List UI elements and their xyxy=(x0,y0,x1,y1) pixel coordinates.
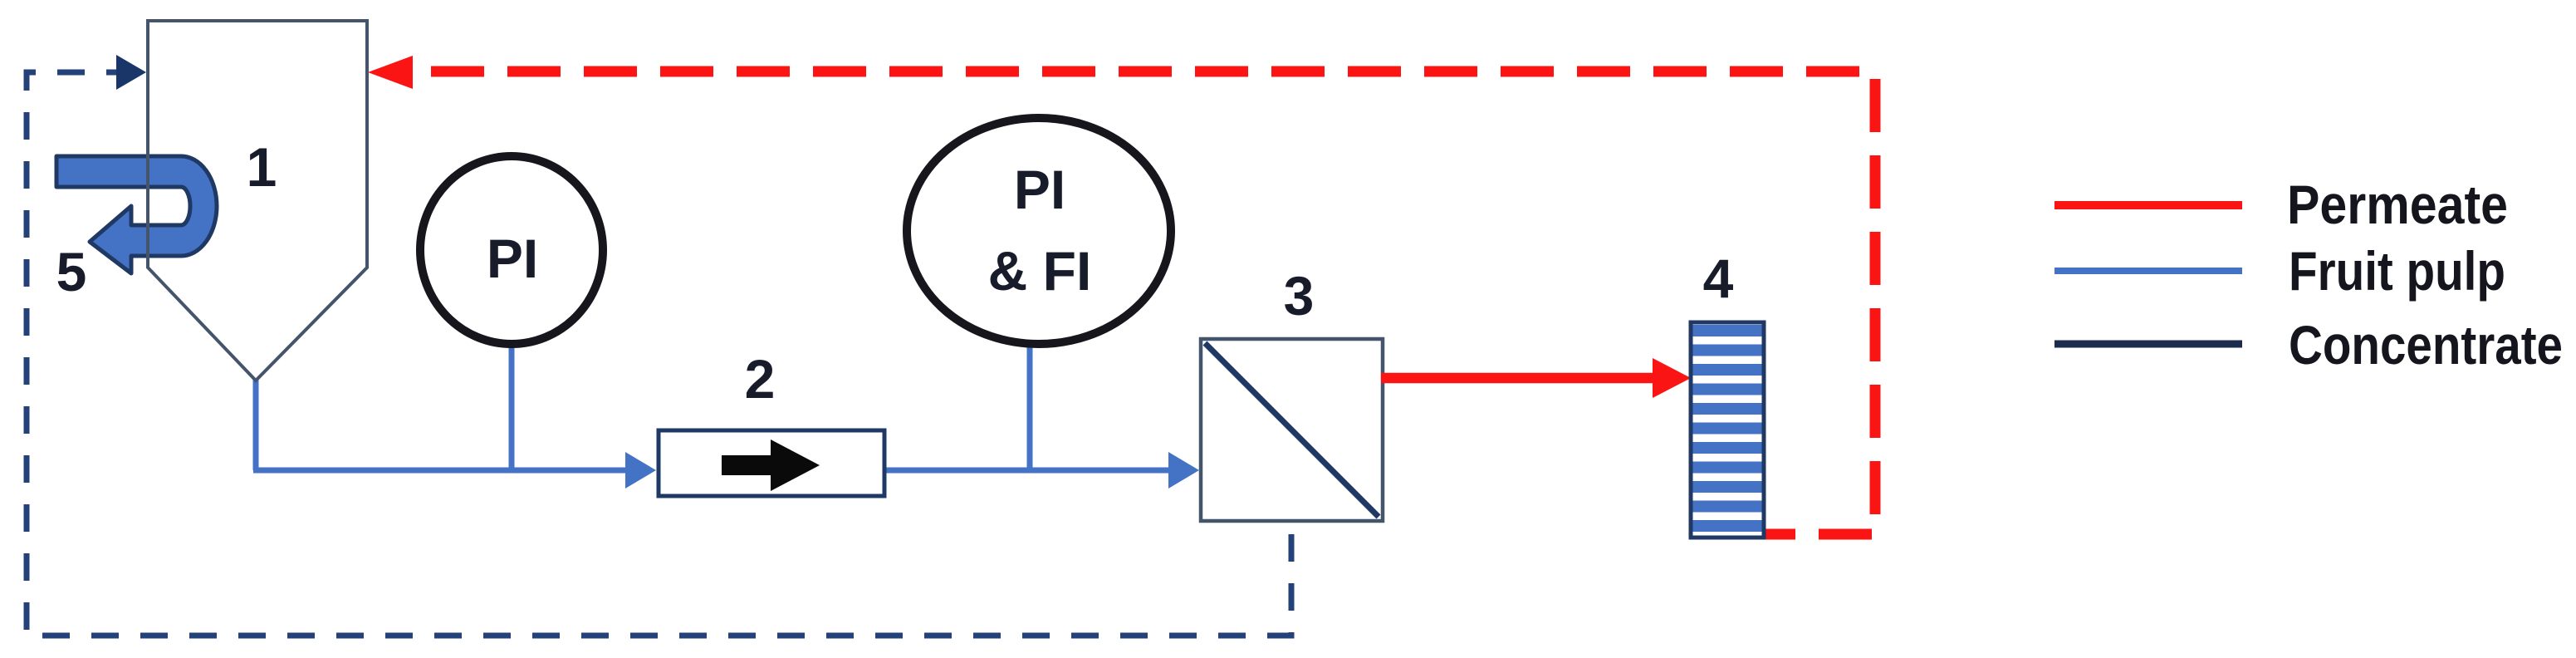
membrane diagonal xyxy=(1205,343,1379,517)
wire: permeate solid line to collector xyxy=(1381,373,1654,384)
svg-text:PI: PI xyxy=(1014,159,1065,220)
svg-text:Permeate: Permeate xyxy=(2287,174,2508,235)
svg-text:Fruit pulp: Fruit pulp xyxy=(2289,240,2505,302)
wire: fruit pulp pipe tank to pump xyxy=(253,378,641,470)
pump flow arrow xyxy=(722,439,820,491)
svg-text:& FI: & FI xyxy=(988,240,1092,302)
legend line permeate xyxy=(2054,201,2242,209)
node: concentrate arrowhead into tank xyxy=(116,55,146,90)
svg-text:4: 4 xyxy=(1703,248,1734,309)
gauge PI circle xyxy=(420,156,603,344)
svg-text:PI: PI xyxy=(487,228,538,289)
wire: PI&FI stem xyxy=(1027,339,1033,470)
membrane module 3 xyxy=(1201,339,1383,521)
recirculation arrow 5 xyxy=(56,156,217,273)
pump 2 xyxy=(659,430,884,496)
tank T1 fill xyxy=(148,21,367,381)
wire: concentrate dashed loop xyxy=(27,72,1291,636)
wire: pump to membrane xyxy=(884,468,1183,474)
svg-text:2: 2 xyxy=(745,348,776,410)
svg-text:1: 1 xyxy=(247,136,277,198)
gauge PI&FI circle xyxy=(907,118,1171,344)
node: blue arrowhead into pump xyxy=(625,452,656,489)
tank T1 outline xyxy=(148,21,367,381)
wire: permeate dashed return xyxy=(431,71,1875,534)
node: permeate arrowhead into tank xyxy=(368,56,413,89)
svg-text:Concentrate: Concentrate xyxy=(2289,314,2563,376)
node: blue arrowhead into membrane xyxy=(1168,452,1199,489)
wire: PI stem xyxy=(509,336,515,470)
svg-text:3: 3 xyxy=(1284,265,1315,327)
node: red arrowhead into collector xyxy=(1653,358,1691,398)
legend line concentrate xyxy=(2054,341,2242,348)
svg-text:5: 5 xyxy=(56,241,87,302)
legend line fruit pulp xyxy=(2054,268,2242,274)
